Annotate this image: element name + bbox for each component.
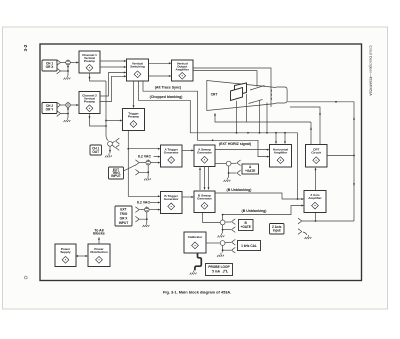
svg-text:1 kHz CAL: 1 kHz CAL: [241, 244, 257, 248]
CH 1 OUT jack circle: [108, 141, 113, 146]
block: Trigger Preamp: [123, 109, 145, 131]
block: A Trigger Generator: [161, 145, 183, 167]
label Z Axis Input: [270, 224, 285, 235]
ground: [143, 223, 150, 227]
svg-text:Generator: Generator: [164, 197, 180, 201]
svg-text:Circuit Description—453A/R453A: Circuit Description—453A/R453A: [369, 46, 373, 97]
label B +GATE: [239, 220, 254, 231]
svg-text:TRIG: TRIG: [120, 212, 128, 216]
node: CH 1 OUT emitter follower jack: [105, 138, 119, 157]
svg-text:CRT: CRT: [211, 92, 218, 96]
wire: bus drop into horizontal amp (a): [275, 132, 277, 144]
wire: bus drop into horizontal amp (b): [284, 132, 286, 144]
wire: switching to vertical output amp (b): [149, 75, 172, 77]
block: Horizontal Amplifier: [270, 145, 292, 168]
label EXT TRIG OR X INPUT: [115, 206, 132, 226]
block: Power Distribution: [88, 244, 110, 267]
CRT vertical deflection plate (rear): [235, 83, 247, 96]
ground: [224, 178, 231, 182]
svg-text:Calibrator: Calibrator: [188, 235, 203, 239]
ground: [218, 233, 225, 237]
svg-text:Preamp: Preamp: [84, 100, 95, 104]
svg-text:(B Unblanking): (B Unblanking): [242, 209, 267, 213]
ground: [217, 253, 224, 257]
wire: CH1 preamp to switching (a): [100, 60, 127, 62]
CRT horizontal deflection plate lower: [249, 100, 263, 104]
svg-text:6.2 VAC: 6.2 VAC: [137, 200, 150, 204]
wire: output amp to CRT plate (b): [193, 71, 257, 87]
node: CH1 input jack and attenuator: [57, 59, 79, 79]
svg-text:6.2 VAC: 6.2 VAC: [138, 154, 151, 158]
node: B +GATE jack: [218, 219, 236, 238]
wire: A sweep / B sweep interconnect (gate): [208, 167, 210, 191]
svg-text:3-2: 3-2: [23, 44, 28, 51]
wire: horizontal plate feed (a): [259, 101, 261, 134]
wire: 6.2 VAC into A trigger: [154, 156, 161, 158]
wire: B trigger to B sweep: [182, 196, 194, 198]
svg-text:Blocks: Blocks: [93, 231, 105, 235]
wire: probe current loop: [190, 253, 202, 275]
label CH 1 OUT: [90, 145, 102, 155]
svg-text:Preamp: Preamp: [128, 115, 139, 119]
svg-text:(Chopped blanking): (Chopped blanking): [150, 95, 183, 99]
svg-text:Generator: Generator: [164, 151, 180, 155]
wire: output amp to CRT upper plate (a): [193, 68, 271, 107]
wire: power supply to power distribution: [76, 255, 88, 257]
B +GATE jack circle: [220, 220, 225, 225]
block: Vertical Output Amplifier: [172, 60, 194, 81]
svg-text:INPUT: INPUT: [111, 174, 121, 178]
wire: trigger preamp to A and B trigger generators: [127, 131, 160, 198]
block: B Trigger Generator: [161, 192, 183, 214]
CRT screen bracket: [276, 87, 287, 103]
svg-text:OR X: OR X: [120, 216, 129, 220]
wire: 6.2 VAC into B trigger: [150, 202, 161, 204]
ground: [190, 271, 197, 275]
block: Vertical Switching: [127, 59, 149, 81]
wire: B sweep to B +GATE jack: [203, 213, 221, 223]
svg-text:OR Y: OR Y: [46, 108, 55, 112]
svg-text:Amplifier: Amplifier: [274, 151, 288, 155]
node: 1 kHz CAL jack: [217, 239, 235, 256]
svg-text:Generator: Generator: [197, 197, 213, 201]
wire: chopped blanking to Z axis amp: [139, 81, 299, 200]
A +GATE jack circle: [226, 161, 231, 166]
wire: CH1 preamp to switching (b): [100, 66, 127, 68]
svg-text:Amplifier: Amplifier: [308, 196, 322, 200]
svg-text:EXT: EXT: [120, 208, 126, 212]
wire: A sweep / B sweep interconnect up: [199, 167, 201, 190]
svg-text:Amplifier: Amplifier: [175, 68, 189, 72]
CRT vertical deflection plate (front): [231, 88, 243, 101]
ground: [144, 176, 151, 180]
svg-text:(B Unblanking): (B Unblanking): [227, 188, 252, 192]
wire: A trigger to A sweep: [182, 149, 194, 151]
block: Channel 2 Vertical Preamp: [79, 92, 100, 114]
svg-text:(EXT HORIZ signal): (EXT HORIZ signal): [219, 142, 251, 146]
diagram border frame: [40, 44, 362, 281]
bottom-left mark: [24, 276, 27, 279]
svg-text:+GATE: +GATE: [240, 225, 250, 229]
wire: B unblanking (lower) to Z axis amp: [222, 205, 304, 221]
ground: [64, 76, 71, 80]
node: EXT TRIG OR X jack (B): [135, 206, 160, 227]
svg-text:(Alt Trace Sync): (Alt Trace Sync): [155, 86, 181, 90]
svg-text:Input: Input: [273, 229, 282, 233]
svg-text:Switching: Switching: [130, 64, 145, 68]
ground: [64, 118, 71, 122]
wire: horizontal plate feed (b): [266, 103, 268, 134]
wire: vertical plate stub (b): [246, 94, 248, 122]
wire: CRT anode line down right side: [287, 101, 355, 221]
svg-text:Distribution: Distribution: [90, 250, 107, 254]
block: B Sweep Generator: [194, 191, 215, 213]
wire: vertical plate stub (a): [236, 101, 238, 134]
wire: CRT heater from CRT circuit: [290, 107, 321, 144]
node: EXT TRIG INPUT jack (A): [124, 159, 161, 180]
wire: CH2 preamp to switching (a): [100, 72, 127, 97]
ground: [305, 235, 312, 239]
wire: switching to vertical output amp (a): [149, 62, 172, 64]
wire: calibrator to 1 kHz CAL jack: [206, 242, 220, 244]
wire: CH2 trigger pickoff: [89, 114, 107, 126]
wire: pickoff bus into trigger preamp: [106, 120, 123, 122]
block: Z Axis Amplifier: [304, 191, 326, 213]
label 1 kHz CAL: [238, 241, 261, 251]
wire: switching to trigger preamp: [133, 81, 135, 108]
ground: [105, 153, 112, 157]
svg-text:Preamp: Preamp: [84, 59, 95, 63]
wire: B unblanking (upper) to Z axis amp: [215, 193, 304, 200]
svg-text:PROBE LOOP: PROBE LOOP: [208, 265, 230, 269]
svg-text:OR X: OR X: [46, 65, 55, 69]
wire: A sweep / B sweep interconnect down: [204, 167, 206, 191]
block: Calibrator: [184, 232, 206, 253]
svg-text:INPUT: INPUT: [119, 221, 129, 225]
block: A Sweep Generator: [194, 145, 215, 167]
svg-text:5 mA: 5 mA: [212, 270, 220, 274]
1 kHz CAL jack circle: [220, 241, 225, 246]
svg-text:Fig. 3-1. Main block diagram o: Fig. 3-1. Main block diagram of 453A.: [163, 290, 231, 295]
block: Power Supply: [55, 244, 76, 267]
label PROBE LOOP 5 mA: [206, 264, 233, 276]
CRT envelope: [207, 81, 287, 111]
label EXT TRIG INPUT: [109, 167, 124, 179]
wire: A sweep to horizontal amp: [215, 149, 270, 151]
label CH 1 OR X: [42, 60, 57, 71]
wire: CRT circuit to right bus: [327, 155, 354, 157]
CRT horizontal deflection plate upper: [250, 86, 265, 91]
svg-text:Supply: Supply: [60, 250, 71, 254]
block: CRT Circuit: [306, 145, 328, 168]
node: A +GATE jack: [215, 160, 241, 182]
wire: alt trace sync / ext horiz to horizontal amp: [143, 81, 270, 158]
node: Z axis input jack: [298, 213, 354, 240]
wire: CH1 trigger pickoff: [89, 73, 107, 81]
wire: CH2 preamp to switching (b): [100, 75, 127, 101]
node: CH2 input jack and attenuator: [57, 102, 79, 122]
wire: CRT cathode from CRT circuit: [214, 113, 312, 144]
svg-text:OUT: OUT: [92, 150, 99, 154]
wire: Z axis amp to CRT circuit: [315, 168, 317, 191]
label CH 2 OR Y: [42, 103, 57, 114]
wire: power distribution to all blocks: [98, 237, 100, 244]
svg-text:+GATE: +GATE: [245, 169, 255, 173]
svg-text:Generator: Generator: [197, 151, 213, 155]
label A +GATE: [242, 164, 259, 174]
CRT screen dashes: [271, 90, 273, 100]
block: Channel 1 Vertical Preamp: [79, 51, 100, 73]
svg-text:Circuit: Circuit: [311, 151, 321, 155]
wire: trigger pickoff bus down to CH1 OUT: [105, 81, 108, 141]
